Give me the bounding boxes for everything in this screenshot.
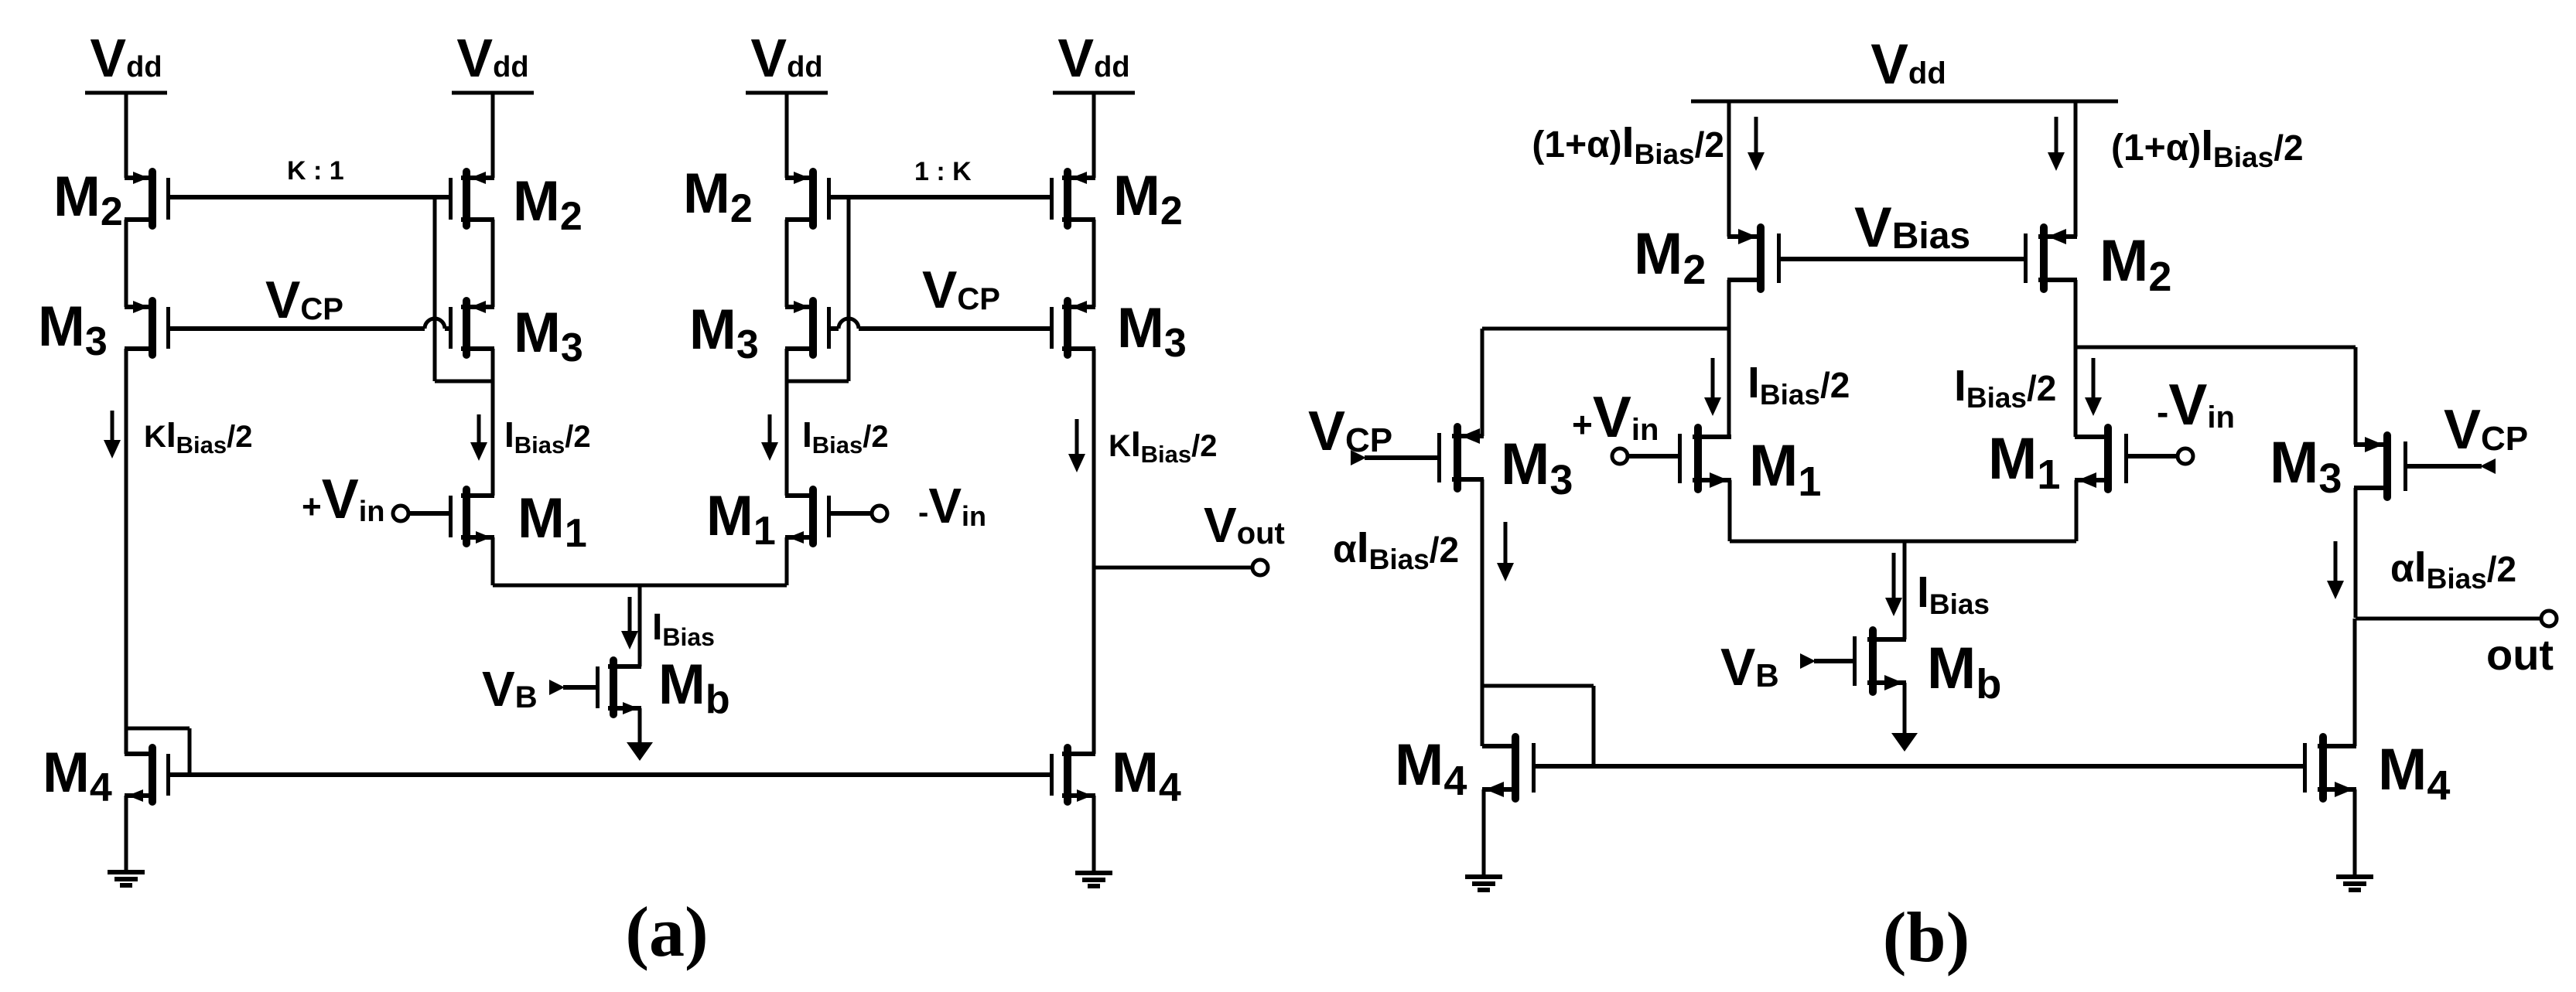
ground col1 [108, 872, 145, 885]
wire M4 source to ground col1 [125, 796, 128, 872]
transistor Mb (a) bias current source [596, 656, 641, 718]
gate line VCP M3 col1-col2 with hop [170, 319, 450, 329]
terminal VCP right (b) [2480, 459, 2496, 474]
terminal circle out (b) [2541, 611, 2557, 626]
wire M1 right source down (b) [2075, 480, 2079, 541]
ground left (b) [1465, 877, 1502, 890]
wire Vdd to M2 left (b) [1727, 101, 1731, 237]
gate line VCP M3 col3-col4 with hop [829, 319, 1051, 329]
diode loop M4 left (b) [1484, 686, 1594, 766]
gate lead VB to Mb (a) [563, 685, 596, 690]
wire Vdd to M2 drain col4 [1092, 93, 1096, 178]
wire M4 source to ground col4 [1092, 796, 1096, 873]
Vdd rail (a) col4 [1053, 91, 1135, 95]
transistor M4 right (b) [2303, 733, 2356, 803]
diode connection wire M2 col2 [435, 197, 493, 381]
wire Vdd to M2 drain col3 [785, 93, 789, 178]
terminal circle -Vin (b) [2178, 448, 2193, 464]
transistor Mb (b) bias current source [1853, 626, 1906, 696]
current arrow IBias/2 col2 [470, 414, 487, 461]
gate line VBias M2 pair (b) [1781, 257, 2024, 261]
current arrow (1+a)IBias/2 left (b) [1748, 117, 1765, 171]
svg-text:1 : K: 1 : K [914, 157, 972, 186]
wire M2 source to M3 drain col3 [785, 220, 789, 307]
ground right (b) [2336, 877, 2373, 890]
wire Vdd to M2 drain col1 [125, 93, 128, 178]
current arrow (1+a)IBias/2 right (b) [2048, 117, 2065, 171]
transistor M4 (a) col4 [1050, 744, 1095, 806]
wire M1 source down col3 [785, 537, 789, 585]
wire M3 right drain up (b) [2354, 347, 2358, 445]
wire out node down to M4 right (b) [2353, 619, 2357, 746]
transistor M2 left (b) [1727, 223, 1781, 293]
wire M3 source down to M4 col1 [125, 349, 128, 730]
node out wire (b) [2356, 617, 2542, 621]
diode loop M4 col1 [126, 728, 190, 775]
gate lead +Vin to M1 (b) [1628, 454, 1678, 459]
wire M2 source to M3 drain col2 [491, 220, 495, 307]
wire M2 right drain node down (b) [2074, 280, 2078, 437]
ground arrow below Mb (b) [1891, 683, 1918, 752]
wire Vdd to M2 right (b) [2074, 101, 2078, 237]
terminal circle +Vin (b) [1612, 448, 1628, 464]
wire M3 right source down (b) [2354, 488, 2358, 618]
terminal circle Vout [1252, 560, 1268, 575]
transistor M3 (a) col4 [1050, 297, 1095, 359]
svg-text:(1+α)IBias/2: (1+α)IBias/2 [1532, 118, 1724, 170]
svg-text:K : 1: K : 1 [287, 156, 344, 186]
svg-text:(1+α)IBias/2: (1+α)IBias/2 [2111, 121, 2304, 173]
Vdd rail (b) [1691, 100, 2118, 104]
current arrow IBias/2 left (b) [1704, 358, 1721, 416]
gate line K:1 mirror M2 col1-col2 [170, 195, 450, 199]
current arrow KIBias/2 col1 [104, 411, 121, 459]
gate lead M1 to -Vin (b) [2127, 454, 2178, 459]
terminal circle -Vin [872, 506, 887, 521]
wire M3 left drain up (b) [1481, 329, 1484, 436]
transistor M1 (a) col2 input +Vin [449, 486, 494, 547]
node Vout wire (a) [1094, 566, 1253, 570]
svg-text:(a): (a) [625, 892, 708, 971]
current arrow IBias (b) [1885, 553, 1902, 616]
terminal VB (b) [1800, 653, 1816, 669]
wire M2 left drain node down (b) [1727, 280, 1731, 437]
current arrow IBias tail (a) [621, 597, 638, 649]
wire M2 source to M3 drain col4 [1092, 220, 1096, 307]
wire tail to Mb drain (b) [1903, 541, 1907, 639]
gate lead +Vin to M1 col2 [408, 511, 450, 516]
transistor M1 (a) col3 input -Vin [785, 486, 831, 547]
svg-text:out: out [2486, 630, 2554, 679]
transistor M3 right (b) [2354, 431, 2407, 501]
transistor M2 (a) col4 [1050, 168, 1095, 230]
ground arrow below Mb (a) [627, 708, 653, 761]
Vdd rail (a) col1 [85, 91, 167, 95]
current arrow KIBias/2 col4 [1068, 419, 1085, 472]
transistor M2 (a) col1 [125, 168, 170, 230]
wire M3 left source down (b) [1481, 479, 1484, 746]
transistor M3 (a) col1 [125, 297, 170, 359]
Vdd rail (a) col2 [452, 91, 534, 95]
wire M4 left source to ground (b) [1482, 789, 1486, 877]
wire M3 source down col2 [491, 349, 495, 496]
transistor M3 left (b) [1437, 423, 1484, 493]
diode connection wire M2 col3 [787, 197, 849, 381]
transistor M1 right (b) [2075, 424, 2128, 493]
node wire M2-right to M3-right (b) [2075, 346, 2356, 349]
terminal VB (a) [549, 680, 565, 695]
gate lead M3 right to VCP (b) [2406, 464, 2482, 469]
svg-text:(b): (b) [1883, 898, 1970, 977]
wire M1 source down col2 [491, 537, 495, 585]
terminal VCP left (b) [1351, 450, 1366, 465]
transistor M1 left (b) [1678, 424, 1731, 493]
wire into M4 drain col1 [125, 728, 128, 754]
ground col4 [1075, 873, 1112, 886]
transistor M3 (a) col3 [785, 297, 831, 359]
wire M2 source to M3 drain col1 [125, 220, 128, 307]
gate bus M4-M4 (a) [170, 772, 1051, 777]
current arrow IBias/2 col3 [761, 414, 778, 461]
current arrow aIBias/2 left (b) [1497, 522, 1514, 581]
current arrow IBias/2 right (b) [2085, 358, 2102, 416]
Vdd rail (a) col3 [746, 91, 828, 95]
node wire M2-left to M3-left (b) [1482, 327, 1729, 331]
wire Vdd to M2 drain col2 [491, 93, 495, 178]
transistor M2 right (b) [2024, 223, 2077, 293]
transistor M2 (a) col2 [449, 168, 494, 230]
transistor M4 left (b) diode-connected [1482, 733, 1536, 803]
gate line 1:K mirror M2 col3-col4 [829, 195, 1051, 199]
transistor M3 (a) col2 [449, 297, 494, 359]
wire M4 right source to ground (b) [2353, 789, 2357, 877]
transistor M4 (a) col1 diode-connected [125, 744, 170, 806]
current arrow aIBias/2 right (b) [2327, 541, 2344, 599]
gate lead VCP to M3 left (b) [1365, 455, 1439, 460]
transistor M2 (a) col3 [785, 168, 831, 230]
wire tail to Mb drain [638, 585, 642, 666]
gate bus M4-M4 (b) [1536, 764, 2303, 769]
gate lead M1 col3 to -Vin [831, 511, 872, 516]
wire M1 left source down (b) [1728, 480, 1732, 541]
tail node wire (b) [1730, 540, 2076, 544]
terminal circle +Vin [393, 506, 408, 521]
gate lead VB to Mb (b) [1814, 659, 1853, 663]
wire M3 source down col3 [785, 349, 789, 496]
wire M3 source down to M4 col4 [1092, 349, 1096, 754]
tail node wire (a) [493, 584, 787, 588]
